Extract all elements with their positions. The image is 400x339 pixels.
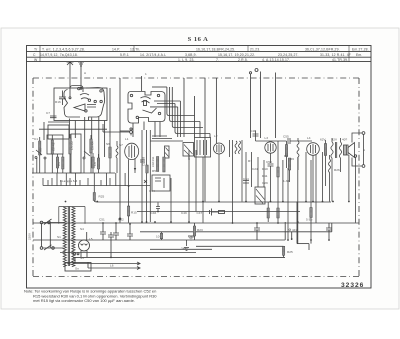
svg-text:C47: C47 [197, 211, 203, 215]
svg-text:C48: C48 [250, 129, 256, 133]
svg-text:C17 R9: C17 R9 [142, 156, 146, 166]
svg-text:62V: 62V [320, 138, 326, 142]
svg-text:10: 10 [156, 235, 160, 239]
svg-text:C54: C54 [243, 177, 249, 181]
svg-text:S1: S1 [57, 235, 61, 239]
svg-text:447: 447 [292, 228, 297, 232]
svg-text:16,16,17,18,BFR,24,25.: 16,16,17,18,BFR,24,25. [196, 47, 235, 51]
svg-text:36,CL,37,12,BFR,29.: 36,CL,37,12,BFR,29. [305, 47, 340, 51]
svg-text:R7: R7 [248, 159, 252, 163]
svg-text:R8: R8 [284, 154, 288, 158]
svg-text:C4B: C4B [188, 235, 194, 239]
svg-text:R26: R26 [334, 168, 340, 172]
svg-text:S7: S7 [119, 143, 123, 147]
svg-text:R5: R5 [152, 169, 156, 173]
svg-text:2.R.5.: 2.R.5. [238, 58, 248, 62]
svg-text:21,23.: 21,23. [250, 47, 260, 51]
svg-text:C1: C1 [34, 137, 38, 141]
svg-text:C3: C3 [57, 162, 61, 166]
svg-text:1: 1 [145, 72, 147, 76]
svg-text:T. w.t. 1,2,3,4,5,6,9,27,28.: T. w.t. 1,2,3,4,5,6,9,27,28. [42, 47, 85, 51]
svg-text:31-33, 12 R.41. 4F: 31-33, 12 R.41. 4F [320, 53, 351, 57]
svg-text:C29: C29 [262, 181, 268, 185]
svg-text:L3: L3 [265, 136, 269, 140]
svg-text:S6: S6 [106, 142, 110, 146]
svg-text:R10: R10 [262, 167, 268, 171]
svg-text:24B: 24B [181, 247, 187, 251]
svg-text:R11: R11 [262, 174, 268, 178]
svg-text:40?: 40? [342, 138, 347, 142]
svg-text:R1: R1 [39, 148, 43, 152]
svg-text:S4: S4 [80, 227, 84, 231]
svg-text:Em.27,28.: Em.27,28. [352, 47, 369, 51]
svg-text:C5 R3: C5 R3 [70, 141, 74, 150]
svg-text:S5: S5 [80, 256, 84, 260]
svg-text:1-30: 1-30 [283, 179, 289, 183]
svg-text:C51: C51 [99, 218, 105, 222]
svg-text:C44: C44 [149, 189, 155, 193]
svg-text:C8: C8 [93, 162, 97, 166]
svg-text:C55: C55 [283, 135, 289, 139]
svg-text:R15: R15 [131, 211, 137, 215]
svg-text:R23: R23 [197, 228, 203, 232]
svg-text:L4: L4 [307, 136, 311, 140]
svg-text:Sn: Sn [75, 267, 79, 271]
svg-text:7.: 7. [216, 58, 219, 62]
svg-text:42V: 42V [332, 138, 338, 142]
svg-text:220V: 220V [28, 233, 32, 240]
svg-text:C7: C7 [46, 111, 50, 115]
svg-text:1. L 9. 23.: 1. L 9. 23. [178, 58, 195, 62]
svg-text:C49: C49 [181, 211, 187, 215]
svg-text:14.P.: 14.P. [112, 47, 120, 51]
svg-text:Em.: Em. [356, 53, 362, 57]
svg-text:R25: R25 [287, 250, 293, 254]
svg-text:5.R.1: 5.R.1 [120, 53, 129, 57]
svg-text:41,TR,39.: 41,TR,39. [332, 58, 348, 62]
svg-text:C18 R11: C18 R11 [151, 156, 155, 167]
svg-text:C24: C24 [252, 167, 258, 171]
svg-text:L2: L2 [214, 134, 218, 138]
svg-text:S 16 A: S 16 A [188, 36, 209, 43]
svg-text:5 Eu: 5 Eu [306, 218, 313, 222]
svg-text:14. 2/17/4,4 A.L: 14. 2/17/4,4 A.L [140, 53, 166, 57]
svg-text:23,24,25,27.: 23,24,25,27. [278, 53, 299, 57]
svg-text:14,97,9,12, 7a,Q43,18.: 14,97,9,12, 7a,Q43,18. [40, 53, 78, 57]
svg-text:C2 R2: C2 R2 [52, 142, 56, 151]
svg-text:L1: L1 [125, 137, 129, 141]
svg-text:b-Lampjes 5+6: b-Lampjes 5+6 [60, 179, 78, 183]
svg-text:C52: C52 [118, 218, 124, 222]
svg-text:12.Th.: 12.Th. [130, 47, 141, 51]
svg-text:3,6B,9.: 3,6B,9. [185, 53, 197, 57]
svg-text:C: C [33, 53, 36, 57]
svg-text:met R15 ligt via condensator C: met R15 ligt via condensator C50 van 100… [33, 298, 135, 303]
svg-text:C40: C40 [187, 155, 191, 160]
svg-text:4. A.13,14,15,17.: 4. A.13,14,15,17. [262, 58, 290, 62]
svg-text:L6: L6 [110, 264, 114, 268]
svg-text:R16: R16 [55, 100, 61, 104]
svg-text:R25: R25 [99, 195, 105, 199]
svg-text:C53: C53 [266, 160, 272, 164]
svg-text:L5: L5 [89, 237, 93, 241]
svg-text:32326: 32326 [341, 282, 364, 289]
svg-text:C9 R4: C9 R4 [91, 141, 95, 150]
svg-text:C46: C46 [151, 211, 157, 215]
svg-text:15,16,17. 19,20,21,22.: 15,16,17. 19,20,21,22. [218, 53, 255, 57]
svg-text:R6: R6 [290, 157, 294, 161]
